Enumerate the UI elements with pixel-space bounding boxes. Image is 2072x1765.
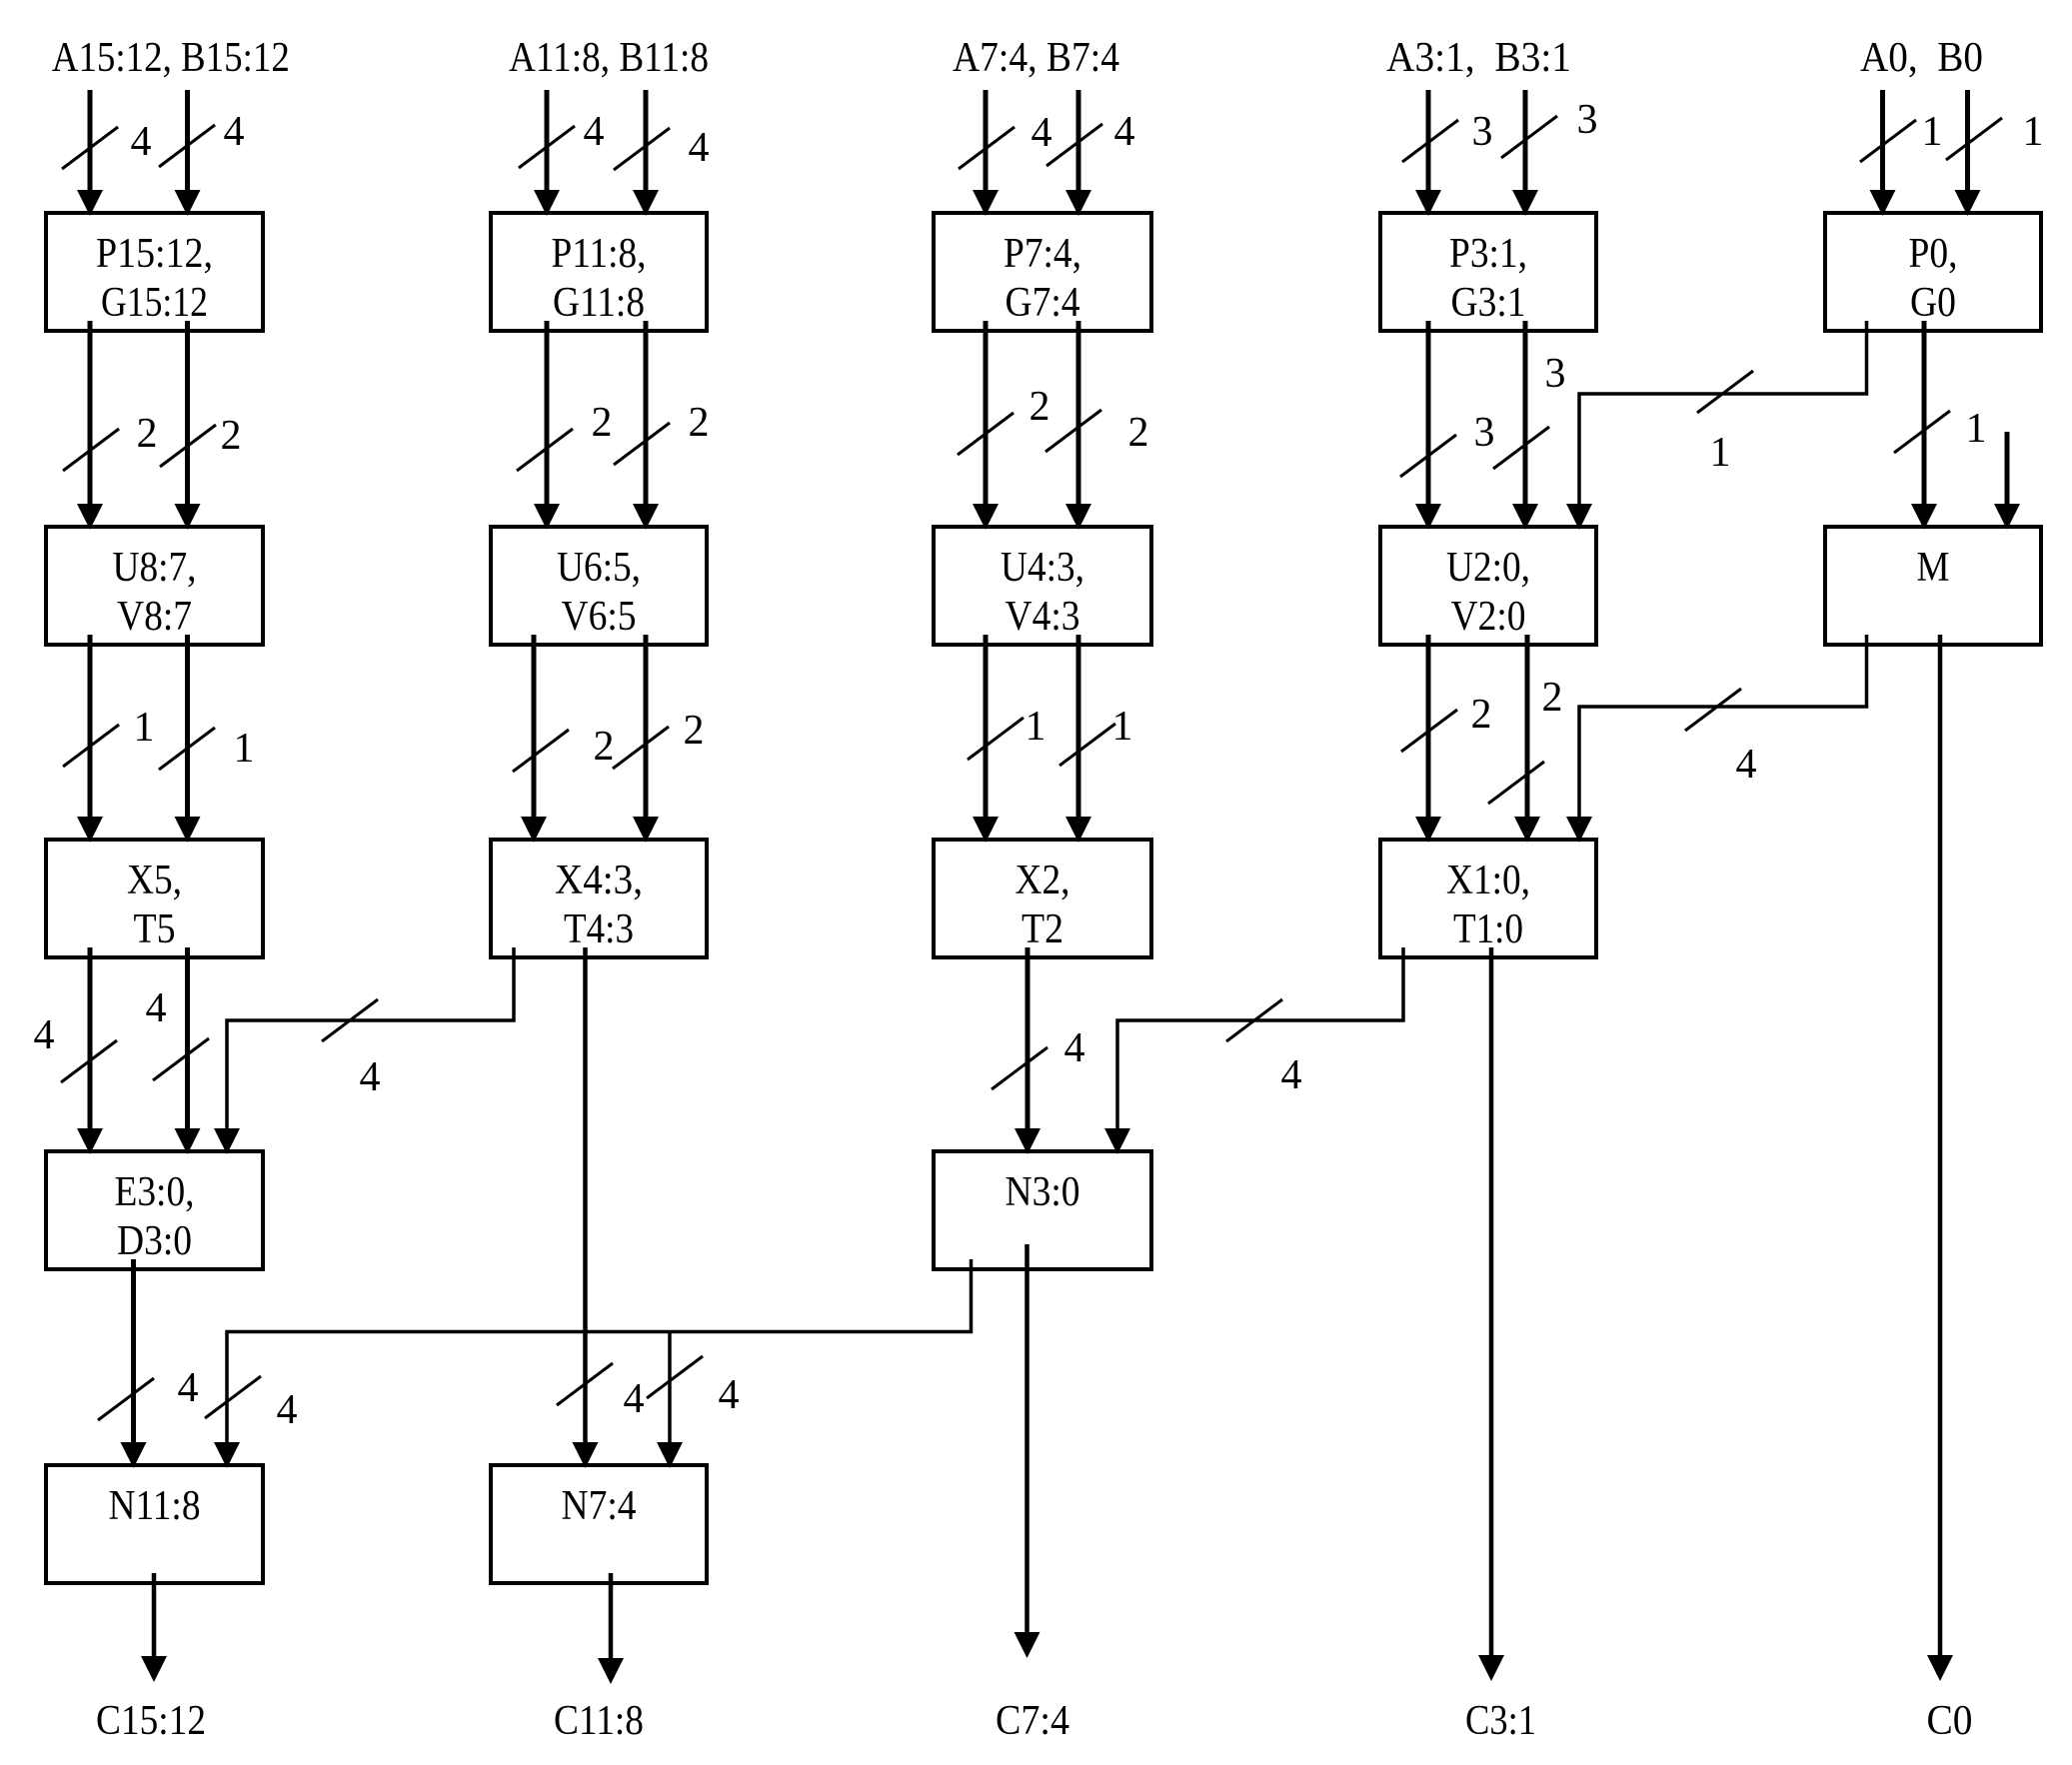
svg-text:1: 1 (134, 705, 155, 751)
svg-text:1: 1 (1966, 406, 1987, 452)
svg-text:A15:12, B15:12: A15:12, B15:12 (52, 35, 290, 81)
svg-text:C0: C0 (1927, 1698, 1973, 1744)
svg-text:U8:7,: U8:7, (113, 545, 197, 591)
svg-text:G0: G0 (1910, 280, 1956, 326)
svg-text:U2:0,: U2:0, (1446, 545, 1530, 591)
svg-text:4: 4 (360, 1054, 381, 1100)
svg-text:P11:8,: P11:8, (552, 231, 647, 277)
svg-text:1: 1 (1922, 109, 1943, 155)
svg-text:X4:3,: X4:3, (555, 858, 643, 903)
svg-text:X5,: X5, (127, 858, 182, 903)
svg-text:2: 2 (1471, 692, 1492, 738)
svg-text:N3:0: N3:0 (1006, 1169, 1080, 1215)
svg-text:4: 4 (719, 1372, 740, 1418)
svg-text:4: 4 (34, 1012, 55, 1058)
svg-text:C3:1: C3:1 (1465, 1698, 1536, 1744)
svg-text:A7:4, B7:4: A7:4, B7:4 (953, 35, 1119, 81)
svg-text:A3:1, B3:1: A3:1, B3:1 (1386, 35, 1571, 81)
svg-text:U4:3,: U4:3, (1001, 545, 1084, 591)
svg-text:4: 4 (178, 1365, 199, 1411)
svg-text:4: 4 (146, 985, 167, 1031)
svg-text:1: 1 (2023, 109, 2044, 155)
svg-text:4: 4 (224, 109, 245, 155)
svg-text:2: 2 (1128, 410, 1149, 456)
svg-text:M: M (1917, 545, 1950, 591)
svg-text:4: 4 (689, 125, 710, 171)
svg-text:V8:7: V8:7 (117, 594, 192, 640)
svg-text:3: 3 (1472, 109, 1493, 155)
svg-text:4: 4 (1114, 109, 1135, 155)
svg-text:G15:12: G15:12 (101, 280, 208, 326)
svg-text:N11:8: N11:8 (109, 1483, 201, 1529)
svg-text:D3:0: D3:0 (117, 1218, 192, 1264)
svg-text:X1:0,: X1:0, (1446, 858, 1530, 903)
svg-text:4: 4 (1064, 1025, 1085, 1071)
svg-text:T4:3: T4:3 (564, 906, 634, 952)
svg-text:N7:4: N7:4 (562, 1483, 637, 1529)
svg-text:2: 2 (137, 411, 158, 457)
svg-text:2: 2 (221, 413, 242, 459)
svg-text:1: 1 (1026, 704, 1046, 750)
svg-text:3: 3 (1577, 97, 1598, 143)
svg-text:C7:4: C7:4 (996, 1698, 1069, 1744)
svg-text:1: 1 (1710, 430, 1731, 476)
svg-text:3: 3 (1545, 351, 1566, 397)
svg-text:3: 3 (1474, 410, 1495, 456)
svg-text:4: 4 (131, 119, 152, 165)
svg-text:2: 2 (1542, 675, 1563, 721)
svg-text:2: 2 (592, 400, 613, 446)
svg-text:2: 2 (1030, 384, 1050, 430)
svg-text:A0, B0: A0, B0 (1860, 35, 1983, 81)
svg-text:4: 4 (584, 109, 605, 155)
svg-text:P3:1,: P3:1, (1449, 231, 1527, 277)
svg-text:V6:5: V6:5 (562, 594, 637, 640)
svg-text:1: 1 (234, 726, 255, 772)
svg-text:P0,: P0, (1909, 231, 1958, 277)
svg-text:X2,: X2, (1016, 858, 1070, 903)
svg-text:1: 1 (1112, 704, 1133, 750)
svg-text:E3:0,: E3:0, (115, 1169, 195, 1215)
svg-text:C15:12: C15:12 (96, 1698, 206, 1744)
svg-text:U6:5,: U6:5, (557, 545, 641, 591)
svg-text:4: 4 (1736, 742, 1757, 788)
svg-text:4: 4 (1281, 1052, 1302, 1098)
svg-text:G3:1: G3:1 (1451, 280, 1526, 326)
svg-text:V4:3: V4:3 (1006, 594, 1080, 640)
svg-text:T2: T2 (1022, 906, 1063, 952)
svg-text:G11:8: G11:8 (553, 280, 645, 326)
svg-text:2: 2 (594, 724, 615, 770)
svg-text:2: 2 (684, 708, 705, 754)
svg-text:C11:8: C11:8 (554, 1698, 644, 1744)
svg-text:P7:4,: P7:4, (1004, 231, 1081, 277)
svg-text:4: 4 (1032, 110, 1052, 156)
svg-text:V2:0: V2:0 (1451, 594, 1526, 640)
svg-text:4: 4 (277, 1387, 298, 1433)
svg-text:T5: T5 (134, 906, 176, 952)
svg-text:A11:8, B11:8: A11:8, B11:8 (509, 35, 709, 81)
svg-text:2: 2 (689, 400, 710, 446)
svg-text:P15:12,: P15:12, (96, 231, 213, 277)
svg-text:T1:0: T1:0 (1453, 906, 1523, 952)
svg-text:4: 4 (624, 1376, 645, 1422)
svg-text:G7:4: G7:4 (1006, 280, 1080, 326)
